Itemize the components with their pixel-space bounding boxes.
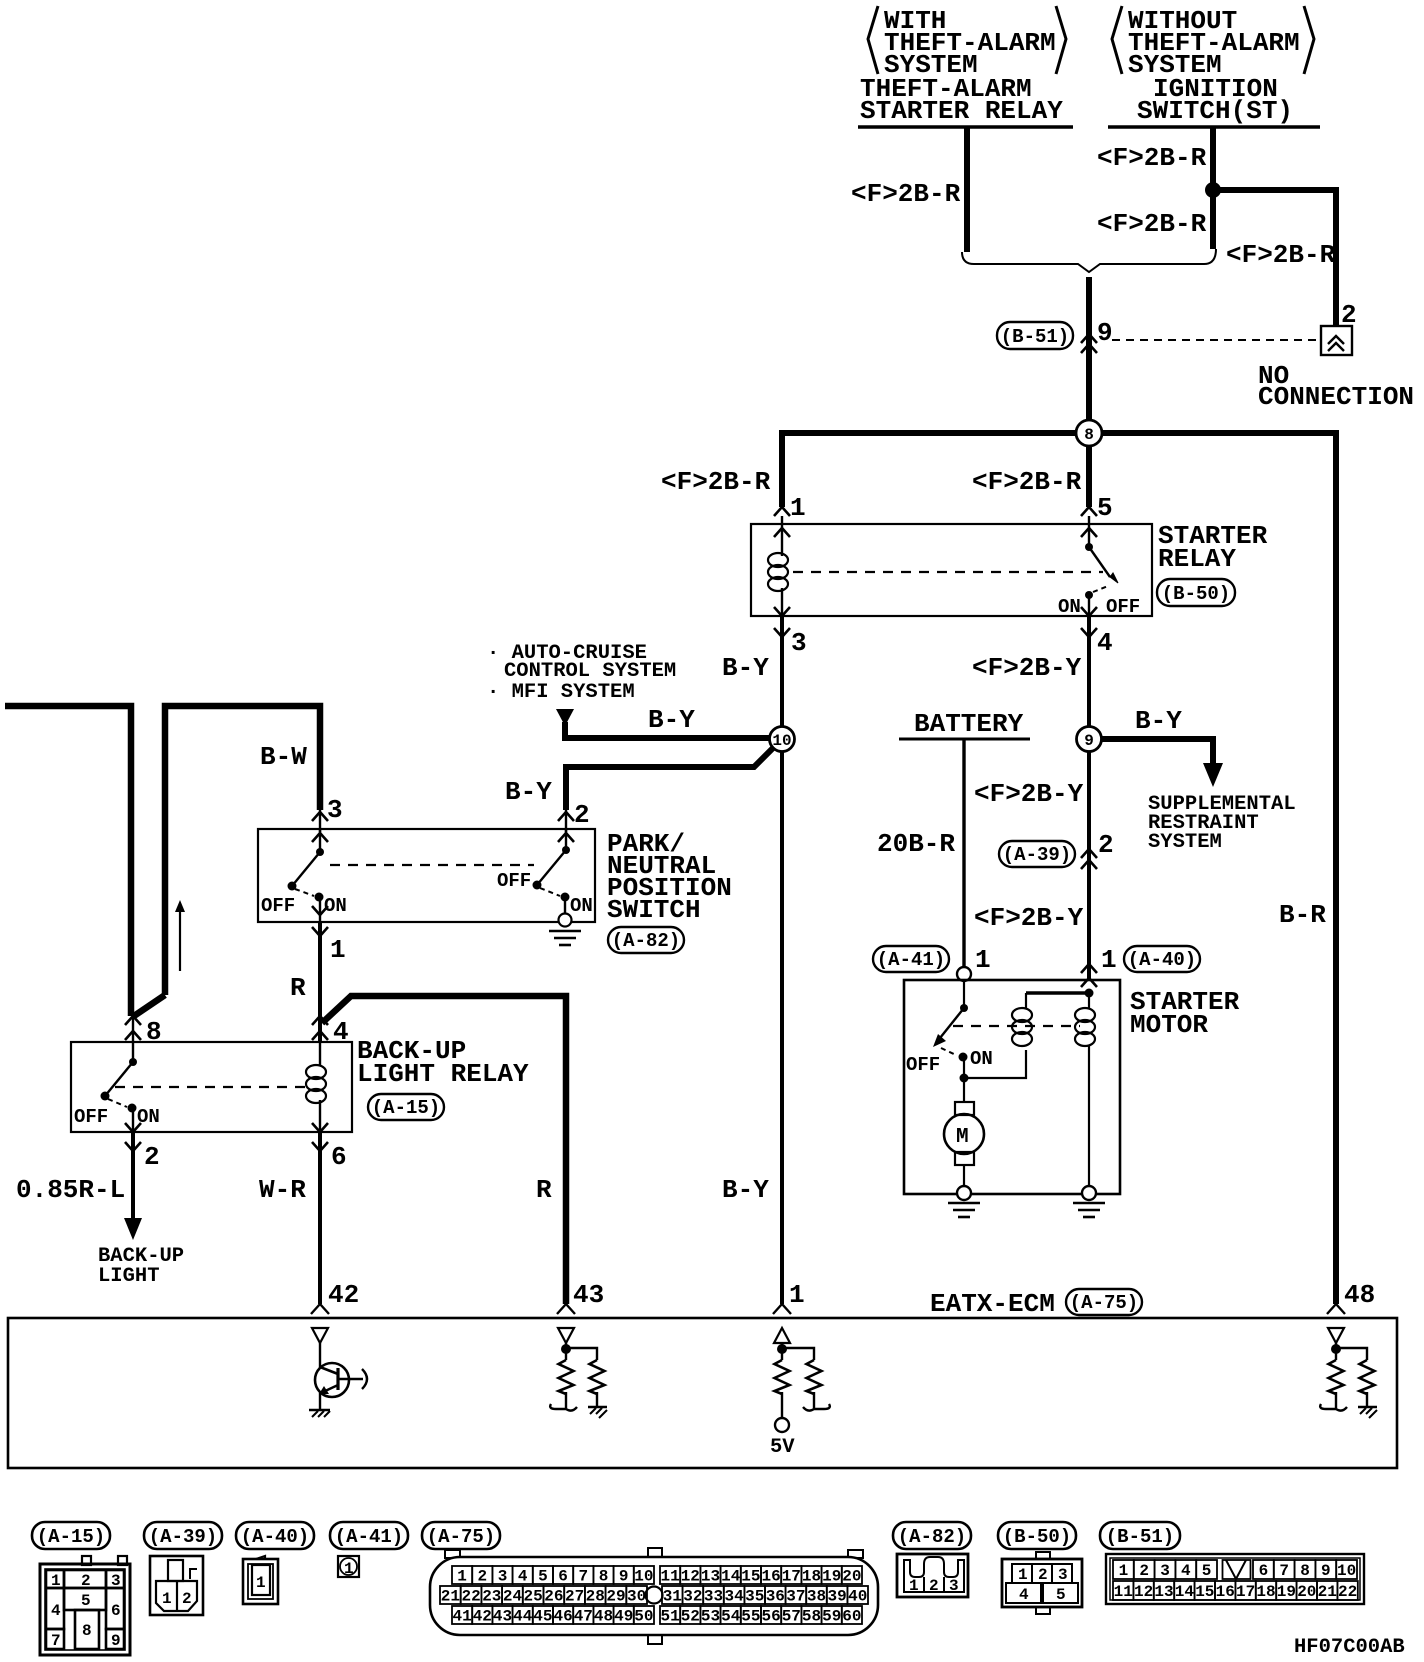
svg-text:1: 1 [975,945,991,975]
R1 tail hook [550,1392,577,1411]
chevrons at starter relay pin5 [1081,507,1097,516]
backup relay dashed link [115,1086,310,1088]
resistor R3 at pin 1 [775,1360,790,1394]
connector label A-82 [608,927,684,953]
wire backup relay pin6 to EATX pin 42 [318,1132,322,1304]
svg-text:<F>2B-R: <F>2B-R [1097,143,1207,173]
svg-text:33: 33 [704,1588,723,1606]
svg-text:10: 10 [1337,1562,1356,1580]
svg-text:16: 16 [1216,1583,1235,1601]
svg-text:24: 24 [503,1588,523,1606]
R6 chassis ground [1358,1392,1377,1418]
svg-text:2: 2 [182,1590,192,1608]
transistor Q1 at pin 42 [315,1343,367,1409]
park/neutral switch label [607,829,732,925]
svg-text:20: 20 [1297,1583,1316,1601]
svg-text:2: 2 [144,1142,160,1172]
svg-text:3: 3 [327,795,343,825]
svg-text:BATTERY: BATTERY [914,709,1024,739]
svg-text:56: 56 [761,1608,780,1626]
svg-text:R: R [290,973,306,1003]
svg-text:2: 2 [1341,300,1357,330]
motor M symbol [944,1078,984,1188]
pin 42 entry triangle [312,1328,328,1343]
starter relay box [751,524,1152,616]
connector label A-40 bottom [236,1522,314,1549]
svg-text:43: 43 [493,1608,512,1626]
wire ignition switch down [1210,127,1216,249]
svg-text:3: 3 [1160,1562,1170,1580]
svg-text:OFF: OFF [261,895,295,917]
svg-text:22: 22 [461,1588,480,1606]
svg-text:57: 57 [782,1608,801,1626]
connector B-51 pinout [1106,1554,1364,1604]
svg-text:(A-39): (A-39) [1003,844,1071,866]
starter relay coil [768,516,788,616]
wire node8 to starter relay pin 1 [779,430,785,507]
svg-text:4: 4 [1181,1562,1191,1580]
auto-cruise / MFI system note [487,642,676,704]
connector A-75 pinout [430,1548,878,1644]
svg-text:B-Y: B-Y [648,705,695,735]
starter motor label [1130,987,1240,1040]
svg-text:(A-41): (A-41) [335,1526,403,1548]
svg-text:CONNECTION: CONNECTION [1258,382,1414,412]
svg-text:43: 43 [573,1280,604,1310]
svg-text:5: 5 [1056,1586,1066,1604]
svg-text:(B-50): (B-50) [1003,1526,1071,1548]
connector label A-75 [1066,1289,1142,1315]
svg-text:OFF: OFF [74,1106,108,1128]
chevrons at park/neutral pin2 [558,812,574,821]
R4 tail hook [803,1392,830,1411]
wire coil top to pin1 wire [1026,991,1089,994]
svg-text:(A-40): (A-40) [241,1526,309,1548]
svg-text:36: 36 [766,1588,785,1606]
svg-text:HF07C00AB: HF07C00AB [1294,1636,1405,1659]
svg-text:(A-41): (A-41) [877,949,945,971]
connector A-15 pinout [40,1556,130,1655]
back-up light relay label [357,1036,529,1089]
wire-end fork at pin 43 [557,1304,575,1314]
chevrons at starter relay pin1 [774,507,790,516]
starter relay switch [1085,516,1118,616]
pull-in coil [1012,993,1032,1046]
svg-text:48: 48 [1344,1280,1375,1310]
battery label [899,709,1030,739]
chevrons at park/neutral pin1 [312,906,328,915]
R5 tail hook [1320,1392,1347,1411]
svg-text:1: 1 [457,1568,467,1586]
svg-text:6: 6 [331,1142,347,1172]
svg-text:5: 5 [1097,493,1113,523]
svg-text:41: 41 [452,1608,471,1626]
svg-text:20B-R: 20B-R [877,829,955,859]
node 8 horizontal wire [782,430,1338,436]
svg-text:17: 17 [1236,1583,1255,1601]
svg-text:(A-75): (A-75) [427,1526,495,1548]
svg-text:(B-51): (B-51) [1001,326,1069,348]
connector A-40 pinout [243,1556,278,1604]
ignition switch (ST) label [1108,74,1320,127]
svg-text:OFF: OFF [1106,596,1140,618]
svg-text:M: M [956,1126,969,1149]
connector A-82 pinout [897,1554,968,1597]
svg-text:1: 1 [344,1560,354,1578]
chevrons below backup relay pin6 [312,1123,328,1132]
connector A-41 pinout [338,1556,359,1578]
svg-text:18: 18 [802,1568,821,1586]
wire B loop to B-W [165,706,320,995]
supplemental restraint system label [1148,793,1296,854]
svg-text:32: 32 [683,1588,702,1606]
svg-text:23: 23 [482,1588,501,1606]
svg-text:<F>2B-Y: <F>2B-Y [972,653,1082,683]
back-up light relay box [71,1042,352,1132]
hold-in coil [1075,993,1095,1188]
pin 48 entry triangle [1328,1328,1344,1343]
svg-text:<F>2B-R: <F>2B-R [1097,209,1207,239]
svg-text:49: 49 [614,1608,633,1626]
svg-text:14: 14 [1175,1583,1195,1601]
no connection text [1258,361,1414,412]
svg-text:14: 14 [721,1568,741,1586]
svg-text:6: 6 [111,1602,121,1620]
connector label B-51 [997,322,1073,349]
svg-text:(A-82): (A-82) [612,930,680,952]
svg-text:STARTER RELAY: STARTER RELAY [860,96,1063,126]
R2 chassis ground [588,1392,607,1418]
svg-text:8: 8 [599,1568,609,1586]
diagonal wire B into node 8 [134,995,165,1016]
svg-text:22: 22 [1338,1583,1357,1601]
backup relay switch [101,1017,138,1132]
svg-text:0.85R-L: 0.85R-L [16,1175,125,1205]
svg-text:38: 38 [807,1588,826,1606]
svg-text:1: 1 [1018,1566,1028,1584]
svg-text:SWITCH(ST): SWITCH(ST) [1137,96,1293,126]
svg-text:B-W: B-W [260,742,307,772]
chevrons on B-51 wire [1081,334,1097,343]
wire node9 down to starter motor pin1 [1087,739,1091,980]
svg-text:SWITCH: SWITCH [607,895,701,925]
wire node10 down to EATX pin1 [780,739,784,1304]
wire node9 to supplemental restraint system [1100,739,1223,787]
svg-text:26: 26 [544,1588,563,1606]
svg-text:· MFI SYSTEM: · MFI SYSTEM [487,681,635,704]
junction dot at pin1 wire [1085,989,1094,998]
svg-text:1: 1 [330,935,346,965]
connector label A-41 [873,946,949,972]
battery wire down [962,739,965,967]
svg-text:30: 30 [627,1588,646,1606]
svg-text:20: 20 [842,1568,861,1586]
node 8 circle [1076,420,1102,446]
svg-text:1: 1 [1119,1562,1129,1580]
svg-text:B-Y: B-Y [505,777,552,807]
wire B-51 down to node 8 [1086,277,1092,433]
connector label B-50 [1157,579,1235,606]
connector label A-41 bottom [330,1522,408,1549]
svg-text:SYSTEM: SYSTEM [1148,831,1222,854]
resistor R4 at pin 1 [807,1360,822,1394]
svg-text:4: 4 [1097,628,1113,658]
svg-text:(A-82): (A-82) [898,1526,966,1548]
svg-text:CONTROL SYSTEM: CONTROL SYSTEM [504,660,676,683]
svg-text:40: 40 [848,1588,867,1606]
svg-text:4: 4 [1019,1586,1029,1604]
wire park/neutral pin1 down to relay pin4 [318,922,322,1042]
wire A from left edge down to relay pin 8 [5,706,131,1016]
svg-text:(A-75): (A-75) [1070,1292,1138,1314]
svg-text:8: 8 [1300,1562,1310,1580]
connector label A-39 bottom [144,1522,222,1549]
ground symbol park/neutral [549,931,581,945]
svg-text:LIGHT: LIGHT [98,1265,160,1288]
pin 48 junction dot [1331,1343,1367,1360]
svg-text:(A-40): (A-40) [1128,949,1196,971]
junction dot ignition branch [1205,182,1221,198]
svg-text:44: 44 [513,1608,533,1626]
svg-text:B-R: B-R [1279,900,1326,930]
connector B-50 pinout [1002,1552,1082,1614]
connector label B-51 bottom [1100,1522,1180,1549]
svg-text:59: 59 [822,1608,841,1626]
svg-text:25: 25 [523,1588,542,1606]
wire-end fork at pin 1 [773,1304,791,1314]
connector label A-15 bottom [32,1522,110,1549]
svg-text:1: 1 [162,1590,172,1608]
chevrons at backup relay pin8 [125,1016,141,1025]
connector A-39 pinout [150,1556,203,1615]
svg-text:12: 12 [681,1568,700,1586]
svg-text:46: 46 [553,1608,572,1626]
svg-text:9: 9 [1321,1562,1331,1580]
svg-text:W-R: W-R [259,1175,306,1205]
svg-text:28: 28 [586,1588,605,1606]
svg-text:50: 50 [634,1608,653,1626]
svg-text:1: 1 [789,1280,805,1310]
svg-text:8: 8 [82,1622,92,1640]
svg-text:OFF: OFF [906,1054,940,1076]
svg-text:58: 58 [802,1608,821,1626]
starter relay label [1158,521,1268,574]
svg-text:9: 9 [1084,732,1094,750]
svg-text:3: 3 [791,628,807,658]
svg-text:6: 6 [558,1568,568,1586]
svg-text:RELAY: RELAY [1158,544,1236,574]
resistor R5 at pin 48 [1329,1360,1344,1394]
svg-text:47: 47 [574,1608,593,1626]
EATX-ECM box [8,1318,1397,1468]
svg-text:EATX-ECM: EATX-ECM [930,1289,1055,1319]
svg-text:15: 15 [741,1568,760,1586]
svg-text:(B-50): (B-50) [1162,583,1230,605]
svg-text:42: 42 [473,1608,492,1626]
svg-text:5V: 5V [770,1436,795,1459]
svg-text:35: 35 [745,1588,764,1606]
svg-text:ON: ON [570,895,593,917]
coil ground symbol [1073,1203,1105,1217]
svg-text:8: 8 [1084,426,1094,444]
theft-alarm bracket label left [868,6,1066,80]
starter motor box [904,980,1120,1194]
wire node8 to starter relay pin 5 [1086,433,1092,507]
node 10 circle [770,727,795,752]
svg-text:34: 34 [724,1588,744,1606]
starter motor dashed link [953,1025,1080,1027]
brace joining wires [962,249,1216,272]
starter relay dashed link [793,571,1103,573]
svg-text:LIGHT RELAY: LIGHT RELAY [357,1059,529,1089]
svg-text:<F>2B-Y: <F>2B-Y [974,903,1084,933]
pin 1 entry triangle [774,1328,790,1343]
svg-text:(A-15): (A-15) [37,1526,105,1548]
svg-text:18: 18 [1256,1583,1275,1601]
park/neutral position switch box [258,829,595,922]
pin 43 entry triangle [558,1328,574,1343]
svg-text:29: 29 [606,1588,625,1606]
svg-text:R: R [536,1175,552,1205]
svg-text:5: 5 [81,1592,91,1610]
svg-text:3: 3 [949,1577,959,1595]
svg-text:19: 19 [822,1568,841,1586]
svg-text:39: 39 [827,1588,846,1606]
svg-text:B-Y: B-Y [1135,706,1182,736]
backup relay coil [306,1042,326,1132]
svg-text:<F>2B-R: <F>2B-R [972,467,1082,497]
svg-text:10: 10 [772,732,791,750]
svg-text:1: 1 [1101,945,1117,975]
svg-text:3: 3 [1058,1566,1068,1584]
svg-text:9: 9 [1097,318,1113,348]
wire theft-alarm relay down [964,127,970,252]
svg-text:51: 51 [660,1608,679,1626]
svg-text:6: 6 [1259,1562,1269,1580]
wire node10 lower-left diagonal branch [566,748,773,810]
svg-text:1: 1 [909,1577,919,1595]
svg-text:45: 45 [533,1608,552,1626]
starter motor switch [933,981,969,1083]
chevrons at starter motor pin1 [1081,964,1097,973]
svg-text:53: 53 [701,1608,720,1626]
arrow to auto-cruise systems [556,709,574,726]
wire-end fork at pin 42 [311,1304,329,1314]
svg-text:55: 55 [741,1608,760,1626]
resistor R6 at pin 48 [1360,1360,1375,1394]
svg-text:2: 2 [477,1568,487,1586]
chevrons below starter relay pin4 [1081,607,1097,616]
svg-text:16: 16 [761,1568,780,1586]
node 9 circle [1077,727,1102,752]
connector label A-82 bottom [893,1522,971,1549]
no-connection box [1321,326,1352,355]
svg-text:(A-39): (A-39) [149,1526,217,1548]
svg-text:1: 1 [790,493,806,523]
svg-text:OFF: OFF [497,870,531,892]
svg-text:4: 4 [518,1568,528,1586]
svg-text:1: 1 [51,1572,61,1590]
resistor R2 at pin 43 [590,1360,605,1394]
svg-text:2: 2 [929,1577,939,1595]
svg-text:13: 13 [1154,1583,1173,1601]
svg-text:(B-51): (B-51) [1106,1526,1174,1548]
svg-text:31: 31 [663,1588,682,1606]
svg-text:2: 2 [81,1572,91,1590]
wire pin3 down to node 10 [780,616,784,739]
svg-text:60: 60 [842,1608,861,1626]
resistor R1 at pin 43 [559,1360,574,1394]
svg-text:<F>2B-Y: <F>2B-Y [974,779,1084,809]
wire branch right to no-connection [1213,190,1336,327]
chevrons at A-39 [1081,849,1097,858]
svg-text:3: 3 [498,1568,508,1586]
connector label A-75 bottom [422,1522,500,1549]
park/neutral right switch [533,829,571,914]
svg-text:MOTOR: MOTOR [1130,1010,1208,1040]
chevrons at park/neutral pin3 [312,812,328,821]
svg-text:5: 5 [1202,1562,1212,1580]
svg-text:ON: ON [1058,596,1081,618]
wire backup relay pin2 to back-up light [124,1132,142,1240]
svg-text:37: 37 [786,1588,805,1606]
svg-text:B-Y: B-Y [722,653,769,683]
svg-text:<F>2B-R: <F>2B-R [1226,240,1336,270]
pin 43 junction dot [561,1343,597,1360]
svg-text:9: 9 [619,1568,629,1586]
svg-text:7: 7 [51,1632,61,1650]
svg-text:12: 12 [1134,1583,1153,1601]
battery connector circle A-41 [957,967,971,981]
dashed line to no-connection [1112,339,1320,341]
coil ground contact circle [1082,1186,1096,1200]
svg-text:10: 10 [634,1568,653,1586]
park/neutral dashed link [330,864,534,866]
svg-text:13: 13 [701,1568,720,1586]
svg-text:11: 11 [660,1568,679,1586]
flow arrow up [175,900,185,971]
svg-text:7: 7 [1279,1562,1289,1580]
svg-text:5: 5 [538,1568,548,1586]
transistor ground [309,1410,330,1417]
svg-text:<F>2B-R: <F>2B-R [851,179,961,209]
svg-text:21: 21 [441,1588,460,1606]
svg-text:42: 42 [328,1280,359,1310]
ground contact circle park/neutral [559,914,572,927]
back-up light label [98,1245,184,1288]
svg-text:2: 2 [1098,830,1114,860]
wire B-R right side down [1333,430,1339,1304]
svg-text:11: 11 [1114,1583,1133,1601]
connector label B-50 bottom [998,1522,1076,1549]
connector label A-40 [1124,946,1200,972]
motor ground symbol [948,1203,980,1217]
svg-text:27: 27 [565,1588,584,1606]
motor ground contact circle [957,1186,971,1200]
svg-text:4: 4 [51,1602,61,1620]
svg-text:9: 9 [111,1632,121,1650]
park/neutral left switch [288,829,325,922]
pin 1 junction dot [777,1343,814,1360]
svg-text:48: 48 [594,1608,613,1626]
svg-text:2: 2 [1038,1566,1048,1584]
wire-end fork at pin 48 [1327,1304,1345,1314]
R branch wire to EATX pin 43 [322,996,566,1304]
wire ON contact to pull-in coil [964,1050,1026,1078]
svg-text:1: 1 [256,1574,266,1592]
connector label A-15 [368,1094,444,1120]
svg-text:ON: ON [970,1048,993,1070]
